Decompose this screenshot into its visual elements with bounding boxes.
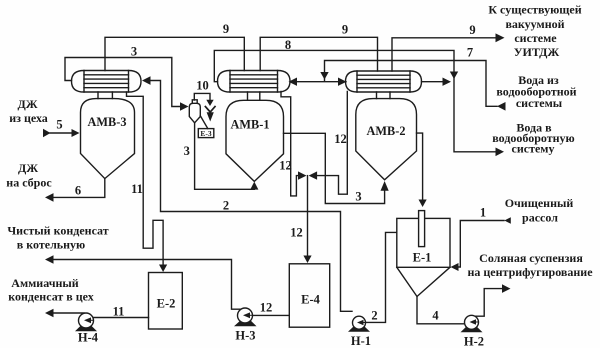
svg-text:в котельную: в котельную <box>17 238 85 252</box>
svg-text:Е-4: Е-4 <box>301 293 321 307</box>
svg-text:на центрифугирование: на центрифугирование <box>467 265 593 279</box>
svg-text:Н-3: Н-3 <box>235 329 255 343</box>
wire T2 drain <box>281 92 298 196</box>
feedwell tube <box>419 211 425 247</box>
svg-text:УИТДЖ: УИТДЖ <box>514 45 560 59</box>
wire 8 <box>214 50 496 151</box>
svg-text:11: 11 <box>113 305 125 319</box>
pump H-1 <box>348 316 371 348</box>
wire 3 <box>65 58 181 107</box>
svg-text:АМВ-1: АМВ-1 <box>231 118 270 132</box>
wire 9 to vacuum system <box>392 38 497 71</box>
wire condensate to boiler / to H-3 <box>53 260 242 310</box>
svg-text:АМВ-2: АМВ-2 <box>367 124 406 138</box>
vessel AMB-3 <box>81 99 135 179</box>
separator vessel <box>192 100 197 104</box>
svg-text:9: 9 <box>223 22 229 36</box>
svg-text:4: 4 <box>432 309 439 323</box>
svg-text:12: 12 <box>290 226 303 240</box>
svg-text:2: 2 <box>223 199 229 213</box>
wire water into T2 right cap <box>297 81 347 83</box>
svg-text:Соляная суспензия: Соляная суспензия <box>479 251 583 265</box>
svg-text:9: 9 <box>469 23 475 37</box>
heat exchanger T1 (on AMB-3) shell <box>72 71 142 93</box>
wire 12 <box>284 133 385 203</box>
svg-text:Е-2: Е-2 <box>157 297 176 311</box>
svg-text:Н-2: Н-2 <box>464 335 484 348</box>
T1 tube sheets <box>84 71 129 93</box>
vessel E-3 <box>198 129 214 138</box>
heat exchanger T2 (on AMB-1) shell <box>218 71 291 93</box>
svg-text:7: 7 <box>467 46 473 60</box>
svg-text:11: 11 <box>131 182 143 196</box>
pump H-3 <box>234 308 257 343</box>
wire 5 into AMB-3 <box>50 132 71 134</box>
vessel E-1 <box>397 218 450 267</box>
wire 9 second header <box>260 37 377 71</box>
wire 9 first header <box>105 37 244 70</box>
wire H-3 discharge to E-4 (12) <box>253 314 290 316</box>
wire T3 outlet to drain leg <box>422 81 444 83</box>
svg-text:9: 9 <box>342 23 348 37</box>
svg-text:5: 5 <box>56 118 62 132</box>
neck T2 to AMB-1 <box>248 92 260 100</box>
wire AMB-2 outlet <box>417 133 423 199</box>
svg-text:3: 3 <box>131 45 137 59</box>
vessel E-2 <box>149 273 183 330</box>
svg-text:К существующей: К существующей <box>488 3 581 17</box>
neck T1 to AMB-3 <box>98 92 112 99</box>
wire 7 <box>325 61 498 107</box>
heat exchanger T3 (on AMB-2) shell <box>346 71 422 92</box>
svg-text:Чистый конденсат: Чистый конденсат <box>7 224 108 238</box>
svg-text:ДЖ: ДЖ <box>18 161 38 175</box>
vent arrows <box>206 100 213 106</box>
svg-text:ДЖ: ДЖ <box>17 97 37 111</box>
wire H-1 discharge into E-1 <box>366 232 397 322</box>
svg-text:12: 12 <box>334 132 347 146</box>
wire brine 1 into E-1 <box>459 221 505 268</box>
svg-text:рассол: рассол <box>522 211 558 225</box>
svg-text:на сброс: на сброс <box>6 176 52 190</box>
pump H-4 <box>75 313 99 345</box>
svg-text:12: 12 <box>260 301 273 315</box>
svg-text:6: 6 <box>75 184 81 198</box>
svg-text:Очищенный: Очищенный <box>505 196 574 210</box>
svg-text:систему: систему <box>512 142 555 156</box>
wire H-4 discharge out <box>53 312 84 314</box>
pump H-2 <box>461 315 485 348</box>
svg-text:из цеха: из цеха <box>9 111 48 125</box>
svg-text:8: 8 <box>285 38 291 52</box>
wire 2 <box>150 81 352 312</box>
svg-text:Аммиачный: Аммиачный <box>11 276 78 290</box>
vessel AMB-2 <box>356 99 417 180</box>
wire overflow 10 <box>194 93 210 100</box>
wire E-1 bottom to H-2 (4) <box>417 297 465 324</box>
svg-text:Н-4: Н-4 <box>78 331 99 345</box>
vessel E-4 <box>289 264 329 327</box>
wire 6 AMB-3 bottom to dump <box>53 179 105 198</box>
svg-text:3: 3 <box>184 144 190 158</box>
svg-text:3: 3 <box>355 190 361 204</box>
svg-text:Е-3: Е-3 <box>200 129 212 138</box>
wire separator to E-3 <box>200 116 208 129</box>
svg-text:1: 1 <box>480 206 486 220</box>
svg-text:конденсат в цех: конденсат в цех <box>8 290 94 304</box>
svg-text:системе: системе <box>514 31 557 45</box>
wire 12 to E-4 <box>307 176 309 256</box>
wire H-2 discharge to centrifuge <box>475 289 503 317</box>
svg-text:Н-1: Н-1 <box>351 334 371 348</box>
svg-text:АМВ-3: АМВ-3 <box>88 115 127 129</box>
svg-text:2: 2 <box>371 309 377 323</box>
vessel AMB-1 <box>226 100 284 181</box>
wire T3 drain <box>317 92 347 195</box>
svg-text:12: 12 <box>279 159 292 173</box>
svg-text:10: 10 <box>196 79 209 93</box>
wire E-2 to H-4 <box>94 317 149 319</box>
neck T3 to AMB-2 <box>377 92 391 99</box>
wire 11 <box>127 92 164 265</box>
svg-text:системы: системы <box>516 96 563 110</box>
wire separator drain to AMB-1 bottom <box>195 123 255 190</box>
svg-text:вакуумной: вакуумной <box>505 17 564 31</box>
T1 tubes <box>84 75 129 88</box>
svg-text:Е-1: Е-1 <box>413 251 432 265</box>
